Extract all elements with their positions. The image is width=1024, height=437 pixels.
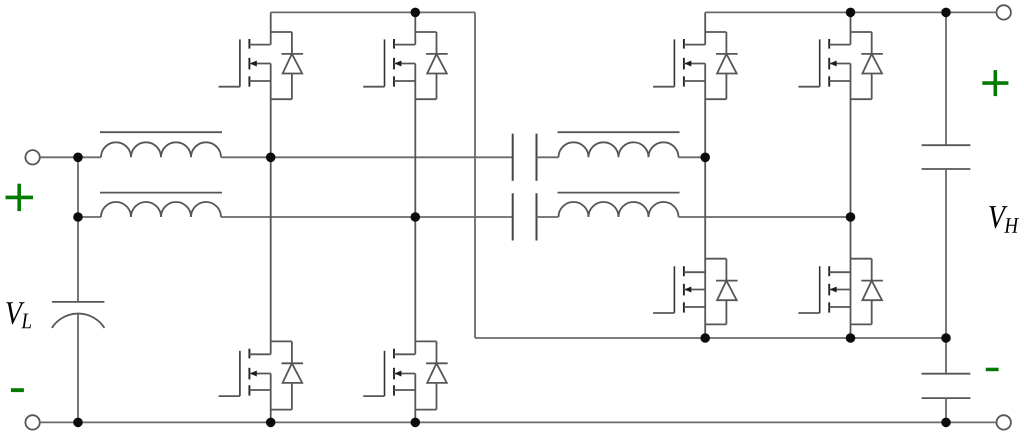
- node B junction: [73, 212, 83, 222]
- transistor Q3: [219, 157, 304, 422]
- capacitor C3: [922, 145, 971, 169]
- label VL: [6, 302, 31, 328]
- transistor Q6: [798, 12, 883, 217]
- label plus high side: [982, 70, 1008, 96]
- wire top rail to mid rail vertical: [474, 12, 476, 338]
- wire node A to node B vertical: [77, 157, 79, 217]
- wire capacitor C4 to bottom rail: [945, 398, 947, 422]
- capacitor C1: [513, 134, 537, 181]
- wire inductor L4 to node F: [679, 216, 851, 218]
- node A junction: [73, 153, 83, 163]
- label minus high side: [986, 368, 999, 372]
- inductor L4: [558, 193, 680, 217]
- terminal high-side negative: [997, 415, 1011, 429]
- inductor L3: [558, 132, 680, 157]
- capacitor C4: [922, 374, 971, 398]
- wire node D to capacitor C2: [415, 216, 512, 218]
- label VH: [989, 206, 1019, 233]
- wire bottom rail: [40, 421, 997, 423]
- node F phase leg4: [846, 212, 856, 222]
- node top rail leg4: [846, 8, 856, 18]
- node D phase leg2: [411, 212, 421, 222]
- wire input positive lead: [40, 156, 78, 158]
- node Q3 source junction: [266, 418, 276, 428]
- node top rail leg2: [411, 8, 421, 18]
- wire inductor L2 to node D: [221, 216, 415, 218]
- capacitor CL plate bottom curved: [52, 314, 105, 328]
- wire capacitor C1 to inductor L3: [537, 156, 559, 158]
- terminal low-side positive: [25, 150, 39, 164]
- capacitor CL plate top: [52, 301, 105, 303]
- wire inductor L3 to node E: [679, 156, 706, 158]
- node C phase leg1: [266, 153, 276, 163]
- transistor Q7: [653, 157, 738, 338]
- terminal low-side negative: [25, 415, 39, 429]
- transistor Q8: [798, 217, 883, 338]
- wire capacitor C2 to inductor L4: [537, 216, 559, 218]
- node bottom rail output: [941, 418, 951, 428]
- transistor Q5: [653, 12, 738, 157]
- transistor Q2: [363, 12, 448, 217]
- wire top rail to capacitor C3: [945, 12, 947, 145]
- wire node A to inductor L1: [78, 156, 101, 158]
- node G mid rail output: [941, 333, 951, 343]
- wire top rail left half: [271, 11, 475, 13]
- node E phase leg3: [700, 153, 710, 163]
- wire node G to capacitor C4: [945, 338, 947, 374]
- wire node B to capacitor CL: [77, 217, 79, 302]
- node mid rail leg3: [700, 333, 710, 343]
- wire capacitor CL to bottom rail: [77, 314, 79, 423]
- transistor Q1: [219, 12, 304, 157]
- wire inductor L1 to node C: [221, 156, 271, 158]
- wire capacitor C3 to node G: [945, 169, 947, 338]
- terminal high-side positive: [997, 5, 1011, 19]
- wire mid rail link horizontal: [475, 337, 705, 339]
- wire top rail right half: [705, 11, 996, 13]
- node CL bottom junction: [73, 418, 83, 428]
- label plus low side: [6, 184, 34, 211]
- wire mid rail right: [705, 337, 946, 339]
- wire node B to inductor L2: [78, 216, 101, 218]
- capacitor C2: [513, 193, 537, 240]
- node mid rail leg4: [846, 333, 856, 343]
- node Q4 source junction: [411, 418, 421, 428]
- node top rail output: [941, 8, 951, 18]
- transistor Q4: [363, 217, 448, 422]
- inductor L1: [100, 132, 222, 157]
- wire node C to capacitor C1: [271, 156, 513, 158]
- inductor L2: [100, 193, 222, 217]
- label minus low side: [11, 388, 24, 392]
